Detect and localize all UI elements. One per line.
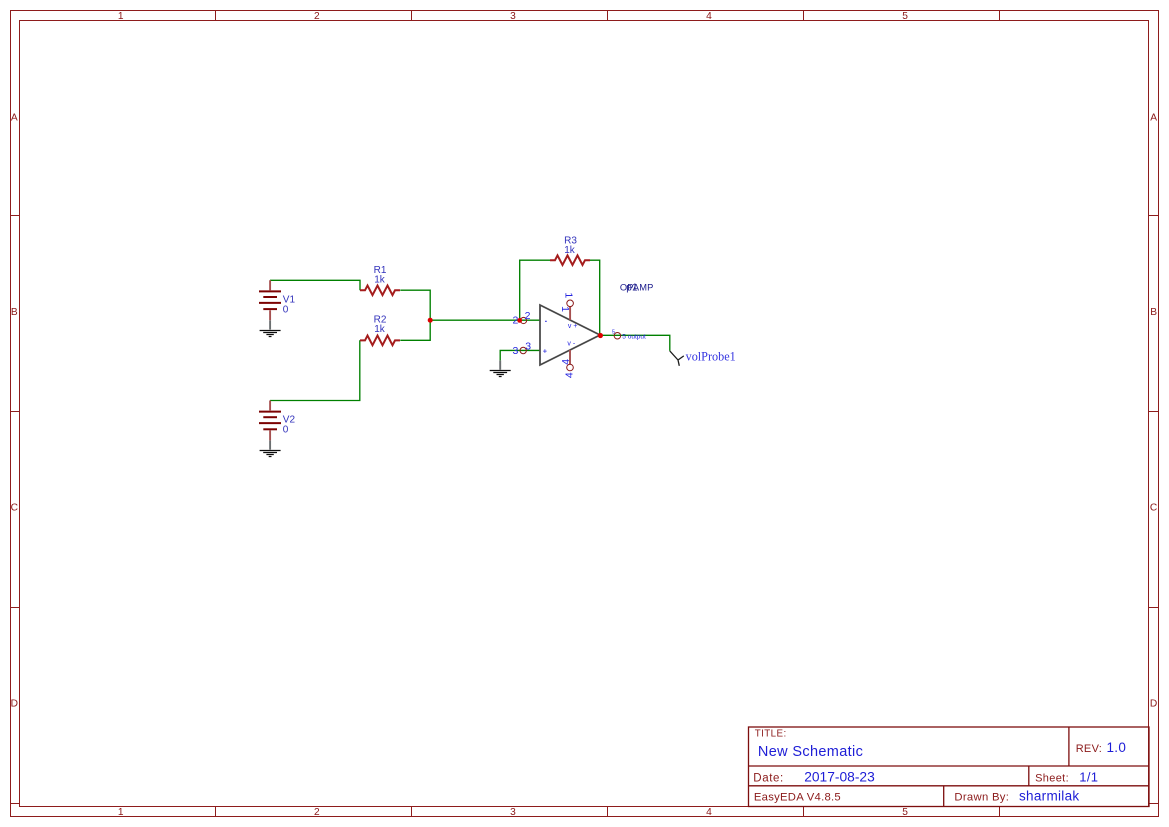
svg-text:4: 4 — [706, 807, 712, 818]
wire V1 top to R1 — [270, 280, 360, 290]
svg-text:2017-08-23: 2017-08-23 — [804, 770, 875, 785]
op-amp minus input marker — [545, 320, 547, 322]
wire junction to op-amp pin 2 — [430, 319, 540, 321]
op-amp pin 2 circle — [520, 317, 526, 323]
svg-text:3: 3 — [510, 807, 516, 818]
svg-text:1.0: 1.0 — [1107, 740, 1127, 755]
svg-text:TITLE:: TITLE: — [755, 729, 787, 740]
resistor R3 — [550, 255, 590, 265]
svg-text:EasyEDA V4.8.5: EasyEDA V4.8.5 — [754, 791, 841, 803]
svg-text:sharmilak: sharmilak — [1019, 789, 1079, 804]
op-amp pin 3 circle — [520, 347, 526, 353]
svg-text:4: 4 — [563, 372, 575, 378]
voltage source V2 — [259, 401, 281, 441]
svg-text:v +: v + — [568, 323, 578, 330]
svg-text:2: 2 — [525, 310, 531, 322]
svg-text:B: B — [11, 307, 18, 318]
op-amp pin 1 line — [569, 307, 571, 320]
junction at op-amp output — [598, 333, 603, 338]
svg-text:5: 5 — [612, 330, 615, 336]
svg-text:1: 1 — [118, 807, 124, 818]
op-amp pin 1 circle — [567, 300, 574, 307]
svg-text:4: 4 — [706, 11, 712, 22]
svg-text:B: B — [1150, 307, 1157, 318]
svg-text:volProbe1: volProbe1 — [686, 350, 736, 364]
wire R1 right to junction column — [400, 290, 430, 340]
svg-text:1k: 1k — [374, 275, 386, 286]
op-amp pin 4 line — [569, 350, 571, 364]
wire feedback right leg — [590, 260, 600, 335]
wire op-amp output to probe — [600, 335, 670, 351]
op-amp U1 triangle — [540, 305, 600, 365]
svg-text:1k: 1k — [374, 324, 386, 335]
op-amp pin 4 circle — [567, 364, 574, 371]
svg-text:Sheet:: Sheet: — [1035, 773, 1069, 785]
ground below V2 — [269, 440, 271, 449]
svg-text:1k: 1k — [564, 245, 576, 256]
ground below V1 — [269, 320, 271, 329]
svg-text:C: C — [1150, 503, 1157, 514]
svg-text:D: D — [1150, 699, 1157, 710]
svg-text:v -: v - — [567, 341, 575, 348]
probe lead — [670, 351, 684, 366]
svg-text:REV:: REV: — [1076, 743, 1102, 755]
wire ground to op-amp pin 3 — [500, 350, 540, 360]
svg-text:A: A — [1150, 113, 1157, 124]
svg-text:5 output: 5 output — [622, 334, 646, 341]
svg-text:D: D — [11, 699, 18, 710]
ground at op-amp pin 3 — [499, 360, 501, 369]
svg-text:4: 4 — [560, 359, 572, 365]
svg-text:3: 3 — [525, 341, 531, 353]
junction feedback at pin 2 — [517, 318, 522, 323]
svg-text:0: 0 — [283, 305, 289, 316]
svg-text:1: 1 — [559, 306, 571, 312]
svg-text:0: 0 — [283, 425, 289, 436]
svg-text:2: 2 — [314, 807, 320, 818]
junction R1-R2 node — [428, 318, 433, 323]
svg-text:p1: p1 — [626, 282, 638, 293]
svg-text:C: C — [11, 503, 18, 514]
op-amp pin 5 circle — [614, 332, 621, 339]
svg-text:2: 2 — [314, 11, 320, 22]
svg-text:New Schematic: New Schematic — [758, 744, 863, 760]
title block — [749, 727, 1150, 807]
svg-text:1/1: 1/1 — [1079, 770, 1098, 785]
wire R2 left to V2 top — [270, 340, 360, 400]
svg-text:1: 1 — [118, 11, 124, 22]
svg-text:A: A — [11, 113, 18, 124]
op-amp plus input marker — [543, 349, 547, 353]
svg-text:Date:: Date: — [753, 773, 784, 785]
svg-text:Drawn By:: Drawn By: — [954, 791, 1009, 803]
resistor R1 — [360, 286, 400, 296]
resistor R2 — [360, 336, 400, 346]
svg-text:3: 3 — [512, 345, 518, 357]
svg-text:5: 5 — [902, 807, 908, 818]
svg-text:1: 1 — [563, 292, 575, 298]
voltage source V1 — [259, 280, 281, 320]
svg-text:5: 5 — [902, 11, 908, 22]
svg-text:3: 3 — [510, 11, 516, 22]
wire feedback left leg — [520, 260, 550, 320]
